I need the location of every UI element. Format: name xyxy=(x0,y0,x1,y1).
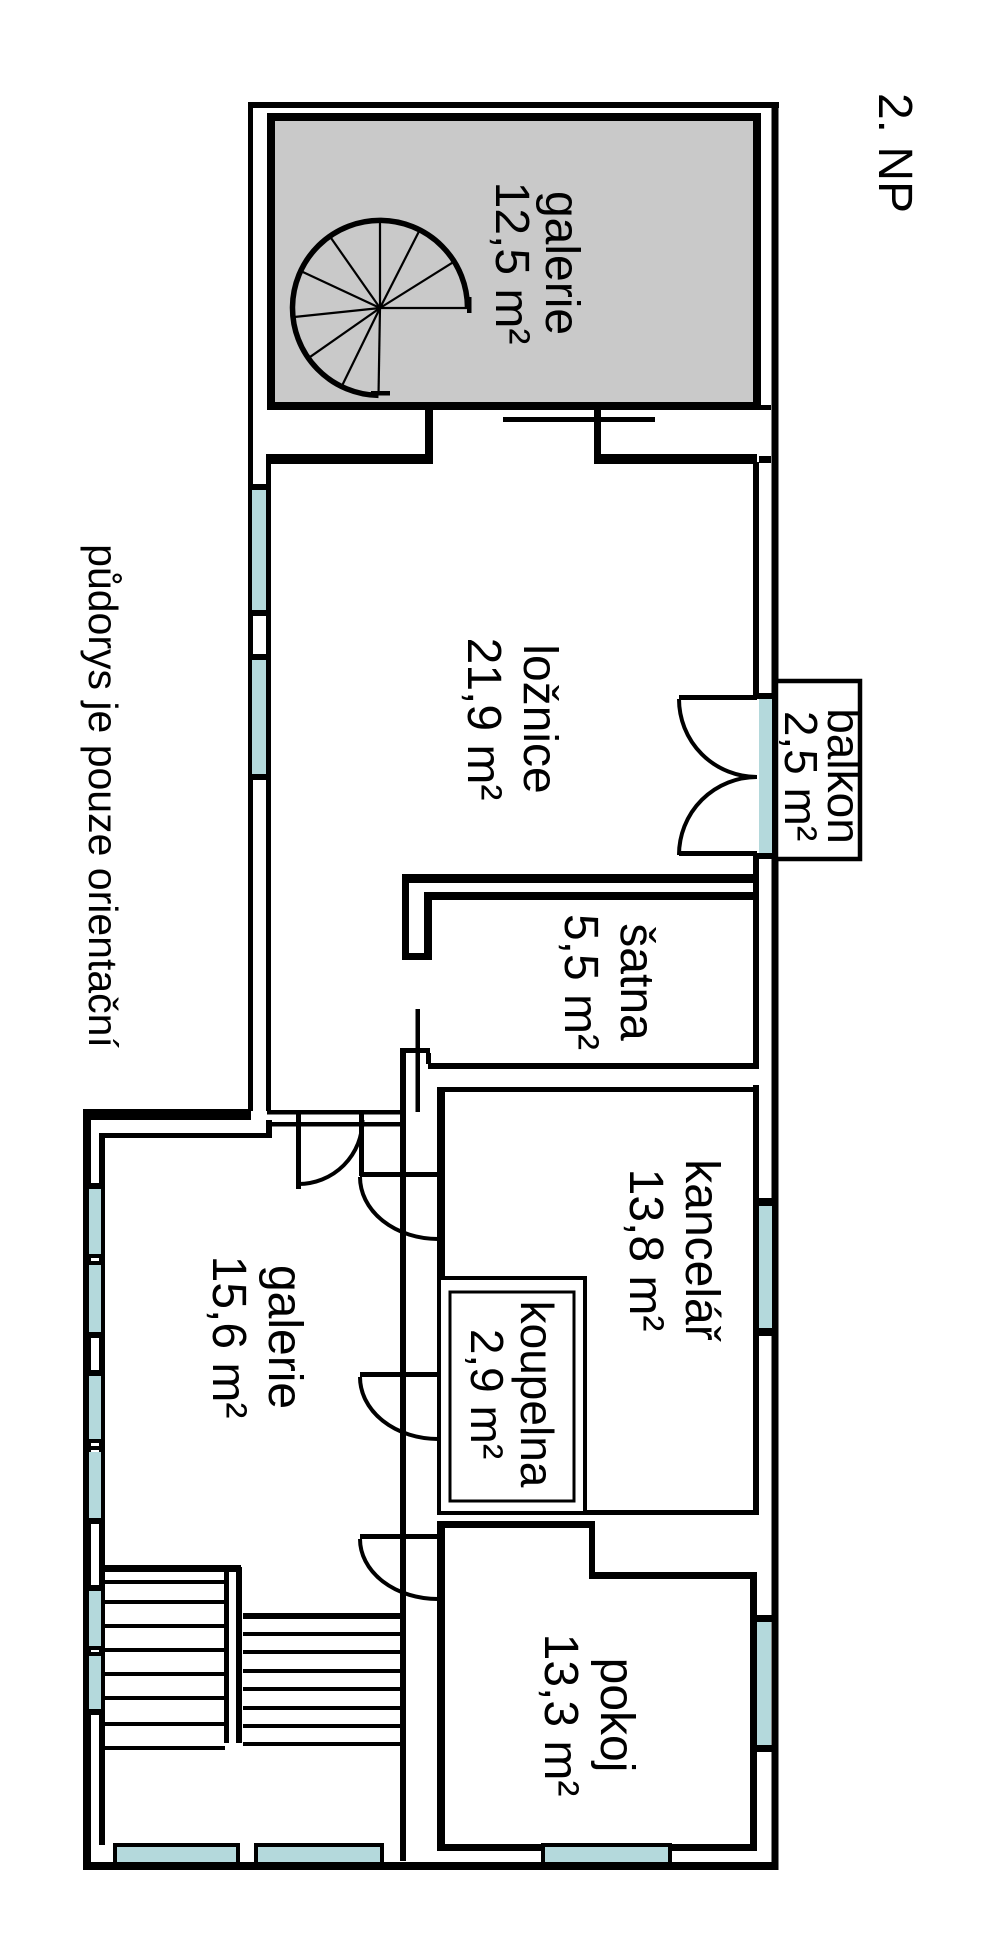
inner line extension top xyxy=(102,1133,268,1138)
bottom window b3 border xyxy=(541,1843,672,1847)
pokoj top wall left xyxy=(437,1521,595,1528)
spiral staircase spokes xyxy=(293,221,468,396)
kancelar door leaf xyxy=(360,1172,438,1177)
window ll1 xyxy=(89,1189,101,1254)
inner line right wall seg1 xyxy=(753,462,759,699)
svg-text:galerie: galerie xyxy=(258,1265,311,1409)
pokoj door leaf xyxy=(360,1534,438,1539)
sep ll5/ll6 xyxy=(83,1646,105,1650)
outer wall top xyxy=(248,102,779,108)
satna top wall xyxy=(424,892,757,900)
label loznice xyxy=(457,638,566,801)
satna bottom wall xyxy=(428,1063,757,1069)
window upper-left 1 xyxy=(252,490,266,610)
svg-text:ložnice: ložnice xyxy=(513,644,566,793)
window ll4 xyxy=(89,1452,101,1518)
galerie top wall line A xyxy=(267,1110,406,1115)
sep ll1/ll2 xyxy=(83,1254,105,1258)
svg-text:šatna: šatna xyxy=(610,923,663,1041)
french door leaf bottom xyxy=(679,851,757,856)
window ll2 xyxy=(89,1265,101,1332)
inner line loznice left xyxy=(266,454,271,1111)
inner line right wall seg3 xyxy=(753,1085,759,1515)
bottom window b1 border xyxy=(113,1843,240,1847)
svg-text:galerie: galerie xyxy=(535,191,588,335)
french door leaf top xyxy=(679,695,757,700)
label kancelar xyxy=(619,1159,728,1341)
svg-text:15,6 m²: 15,6 m² xyxy=(202,1256,255,1419)
window upper-left 2 caps xyxy=(248,654,271,660)
label balkon xyxy=(775,708,870,844)
svg-text:pokoj: pokoj xyxy=(590,1658,643,1773)
svg-text:2,5 m²: 2,5 m² xyxy=(775,711,827,841)
loznice top wall left part xyxy=(267,454,433,464)
stairs divider xyxy=(224,1567,229,1743)
svg-text:koupelna: koupelna xyxy=(511,1301,563,1488)
corridor wall vertical xyxy=(400,1048,406,1861)
balcony door sill caps xyxy=(755,693,778,699)
kancelar left wall xyxy=(437,1087,445,1276)
bottom window b3 glass xyxy=(545,1847,668,1862)
window ll6 cap bottom xyxy=(83,1709,105,1715)
spiral staircase arc xyxy=(293,220,468,395)
outer wall left lower xyxy=(83,1109,91,1870)
svg-text:21,9 m²: 21,9 m² xyxy=(457,638,510,801)
svg-text:5,5 m²: 5,5 m² xyxy=(554,914,607,1050)
french door arc top xyxy=(679,699,757,777)
pokoj door arc xyxy=(360,1539,438,1599)
satna door leaf xyxy=(416,1009,421,1112)
bottom window b2 border xyxy=(254,1843,384,1847)
spiral stair tick east xyxy=(467,297,472,313)
satna left wall upper xyxy=(424,892,432,959)
satna left stub lower xyxy=(426,1053,431,1064)
stairs left flight second line xyxy=(104,1580,225,1584)
pokoj window right caps xyxy=(750,1615,778,1622)
pokoj window right glass xyxy=(757,1622,771,1745)
loznice top wall right part xyxy=(594,454,757,464)
balkon box xyxy=(776,681,860,859)
kancelar window glass xyxy=(759,1206,772,1328)
koupelna door leaf xyxy=(360,1372,438,1377)
window ll1 cap top xyxy=(83,1183,105,1189)
inner line left lower xyxy=(99,1133,105,1845)
loznice bottom wall xyxy=(402,874,757,883)
koupelna inner box xyxy=(450,1292,574,1501)
galerie door leaf xyxy=(296,1114,301,1189)
tick right wall at loznice top xyxy=(759,456,771,463)
pokoj left wall xyxy=(437,1521,445,1845)
doorway jamb right xyxy=(594,408,601,461)
window ll3 cap top xyxy=(83,1370,105,1376)
doorway jamb left (gray room to loznice) xyxy=(425,408,433,461)
window ll5 xyxy=(89,1591,101,1646)
koupelna door arc xyxy=(360,1377,438,1439)
hook horizontal xyxy=(402,953,432,960)
bottom window b2 glass xyxy=(258,1847,380,1862)
galerie door arc xyxy=(299,1120,363,1184)
window upper-left 2 xyxy=(252,660,266,774)
tick at corridor top xyxy=(402,1048,430,1053)
label satna xyxy=(554,914,663,1050)
svg-text:kancelář: kancelář xyxy=(675,1159,728,1341)
french door arc bottom xyxy=(679,777,757,855)
step connector inner corner xyxy=(266,1120,272,1138)
svg-text:13,8 m²: 13,8 m² xyxy=(619,1169,672,1332)
kancelar door arc xyxy=(360,1177,438,1239)
room galerie 12,5 gray fill xyxy=(271,117,757,406)
sep ll3/ll4 xyxy=(83,1439,105,1443)
kancelar top wall xyxy=(438,1087,757,1092)
svg-text:13,3 m²: 13,3 m² xyxy=(534,1634,587,1797)
kancelar window caps xyxy=(753,1198,778,1206)
pokoj bottom wall right part xyxy=(668,1844,757,1851)
outer wall right xyxy=(772,102,779,1870)
tick right wall at gray room bottom xyxy=(759,405,771,410)
label galerie 15,6 xyxy=(202,1256,311,1419)
spiral stair tick south xyxy=(371,391,390,396)
hook vertical xyxy=(402,874,409,960)
inner line right wall seg2 xyxy=(753,855,759,1069)
kancelar bottom wall xyxy=(584,1510,757,1515)
window ll4 cap bottom xyxy=(83,1518,105,1524)
label galerie 12,5 xyxy=(485,182,588,345)
window ll6 xyxy=(89,1656,101,1709)
outer wall bottom xyxy=(83,1862,777,1870)
window ll5 cap top xyxy=(83,1585,105,1591)
inner line right wall seg4 pokoj xyxy=(750,1574,757,1844)
svg-text:12,5 m²: 12,5 m² xyxy=(485,182,538,345)
galerie top wall line B xyxy=(267,1122,406,1127)
svg-text:2. NP: 2. NP xyxy=(868,93,921,213)
koupelna outer box xyxy=(439,1278,585,1513)
window ll3 xyxy=(89,1376,101,1439)
sliding door line xyxy=(503,417,655,422)
svg-text:půdorys je pouze orientační: půdorys je pouze orientační xyxy=(80,544,126,1048)
outer wall left upper xyxy=(248,102,253,1111)
svg-text:2,9 m²: 2,9 m² xyxy=(461,1329,513,1459)
window ll2 cap bottom xyxy=(83,1332,105,1338)
corridor stub jamb xyxy=(359,1114,364,1176)
window upper-left 1 caps xyxy=(248,484,271,490)
stairs left flight top bold xyxy=(104,1565,241,1572)
stairs right treads xyxy=(243,1632,402,1746)
stairs right flight top bold xyxy=(243,1613,402,1619)
bottom window b1 glass xyxy=(117,1847,236,1862)
label koupelna xyxy=(461,1301,563,1488)
outer wall extension top xyxy=(83,1109,251,1120)
balcony door sill glass xyxy=(759,699,772,853)
stairs left treads xyxy=(104,1600,225,1750)
label pokoj xyxy=(534,1634,643,1797)
pokoj top wall right xyxy=(589,1572,757,1579)
pokoj step vertical xyxy=(589,1521,595,1574)
pokoj bottom wall left part xyxy=(437,1844,545,1851)
